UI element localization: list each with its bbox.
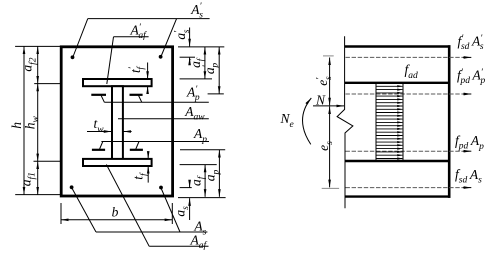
hook top-left (101, 96, 104, 103)
steel top flange (83, 79, 152, 86)
force N arrow (313, 105, 344, 107)
extension line top flange level (34, 83, 61, 85)
tendon mark bottom-right A_p (130, 149, 143, 151)
extension line section top right (178, 46, 224, 48)
dimension a'_p (202, 47, 224, 94)
leader A'_p (104, 101, 208, 103)
dimension a_s below (172, 181, 191, 220)
label A_p (193, 126, 207, 145)
rebar dot top-right A's (159, 55, 163, 59)
dashed line A'_p level with force arrow (346, 93, 472, 95)
concrete section outline (61, 47, 172, 196)
extension line section bottom right (178, 197, 226, 199)
leader A'_s (73, 19, 210, 57)
steel web stress block f_ad hatch arrows (376, 83, 403, 161)
dimension t'_f (128, 63, 148, 93)
dimension a'_f (180, 47, 212, 79)
rebar dot top-left A's (71, 55, 75, 59)
dimension b (61, 204, 172, 220)
label A_af bottom (190, 232, 208, 251)
dashed line A_p level with force arrow (346, 150, 472, 152)
hook top-right (139, 96, 142, 103)
tick e'_s top (323, 55, 334, 57)
stress block bottom chord line (345, 195, 451, 197)
rebar dot bottom-right A_s (159, 186, 163, 190)
extension line section top left (15, 45, 61, 47)
label A_s bottom (193, 219, 206, 238)
leader A_p (101, 141, 209, 143)
label A'_af (130, 23, 148, 42)
extension line bottom flange level (34, 160, 62, 162)
b extension right (171, 203, 173, 224)
svg-text:b: b (112, 204, 119, 219)
leader A'_af (107, 37, 149, 84)
leader A_s (72, 188, 208, 233)
rebar dot bottom-left A_s (70, 185, 74, 189)
dimension a_p bottom (180, 150, 225, 197)
dimension t_f (131, 152, 150, 183)
stress diagram left edge with break zigzag (337, 36, 353, 208)
stress block bottom flange line (345, 160, 450, 162)
label A_aw (184, 104, 205, 123)
tick e_s bottom (322, 187, 339, 189)
dimension e'_s (315, 58, 334, 106)
dimension h_w (22, 84, 41, 162)
leader A_af (106, 165, 208, 247)
tendon mark bottom-left A_p (92, 149, 105, 151)
leader A_aw (118, 118, 209, 120)
hook bottom-right (136, 142, 139, 150)
dashed line A_s level with force arrow (346, 187, 472, 189)
dimension e_s (316, 106, 335, 187)
svg-text:N: N (315, 92, 326, 107)
stress block top chord line (345, 45, 451, 47)
moment arc N_e (303, 98, 312, 144)
label f_sd A_s (455, 167, 482, 186)
steel bottom flange (83, 159, 152, 166)
label f'_sd A'_s (458, 33, 484, 52)
dimension h (9, 46, 24, 194)
label A'_s top (190, 2, 203, 21)
stress block top flange line (345, 82, 450, 84)
label f'_pd A'_p (457, 67, 485, 86)
dimension a_f2 (20, 46, 39, 83)
label f_ad (405, 62, 419, 81)
dimension a_f bottom (180, 165, 217, 197)
b extension left (60, 203, 62, 224)
stress diagram right edge (448, 45, 451, 198)
tendon mark top-left A'_p (91, 94, 106, 96)
label A'_p mid-right (186, 85, 200, 104)
dimension a_f1 (19, 161, 38, 194)
dimension t_w (87, 116, 132, 135)
extension line section bottom left (15, 194, 61, 196)
hook bottom-left (100, 142, 103, 150)
steel web (112, 86, 123, 159)
label f_pd A_p (455, 133, 484, 152)
label N (315, 92, 326, 107)
label N_e (280, 111, 294, 130)
dimension a'_s (173, 28, 195, 64)
tendon mark top-right A'_p (130, 94, 143, 96)
dashed line A's level with force arrow (346, 56, 472, 58)
